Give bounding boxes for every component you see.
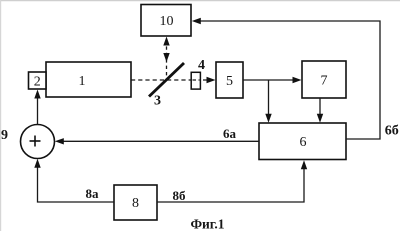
svg-text:1: 1 — [79, 74, 86, 89]
label 6a — [223, 126, 237, 141]
block 7 — [302, 61, 346, 98]
svg-text:Фиг.1: Фиг.1 — [190, 217, 224, 232]
wire: block 7 down into block 6 — [317, 98, 323, 123]
svg-text:6б: 6б — [385, 124, 399, 139]
mirror 3 (diagonal beamsplitter) — [149, 63, 184, 97]
caption Fig.1 — [190, 217, 224, 232]
svg-text:7: 7 — [321, 74, 328, 89]
label 3 — [154, 94, 161, 109]
block 1 — [46, 62, 131, 97]
svg-text:4: 4 — [198, 58, 205, 73]
svg-text:6: 6 — [300, 135, 307, 150]
block 2 — [29, 72, 47, 90]
wire 6b: block 6 right, up, left into block 10 — [192, 18, 380, 139]
svg-text:3: 3 — [154, 94, 161, 109]
block 5 — [216, 62, 243, 98]
wire: junction drop from 5-7 line into block 6 — [265, 80, 271, 123]
label 6b — [385, 124, 399, 139]
svg-text:6а: 6а — [223, 126, 237, 141]
block 6 — [259, 123, 346, 160]
element 4 (shutter) — [191, 72, 200, 89]
svg-text:8а: 8а — [86, 186, 100, 201]
wire 8a: block 8 left, up into summing node 9 — [34, 159, 114, 202]
wire 8b: block 8 right, up into block 6 — [157, 160, 307, 202]
scan edge top — [0, 0, 400, 2]
svg-text:9: 9 — [1, 128, 8, 143]
wire 6a: block 6 to summing node 9 — [55, 138, 259, 144]
summing node 9 (circle with plus) — [21, 125, 55, 159]
block 10 — [141, 5, 191, 37]
svg-text:8б: 8б — [173, 188, 187, 203]
block 8 — [114, 185, 157, 220]
wire: dashed vertical between mirror 3 and block 10 — [163, 37, 169, 79]
svg-text:8: 8 — [132, 196, 139, 211]
label 4 — [198, 58, 205, 73]
svg-text:10: 10 — [160, 14, 174, 29]
svg-text:5: 5 — [226, 74, 233, 89]
label 8b — [173, 188, 187, 203]
svg-text:2: 2 — [34, 75, 41, 90]
label 9 — [1, 128, 8, 143]
wire: block 5 to block 7 — [243, 77, 302, 83]
label 8a — [86, 186, 100, 201]
wire: dashed beam from block 1 to block 5 — [131, 77, 216, 83]
wire: summing node 9 up into block 2 — [34, 90, 40, 125]
scan edge left — [0, 0, 2, 231]
